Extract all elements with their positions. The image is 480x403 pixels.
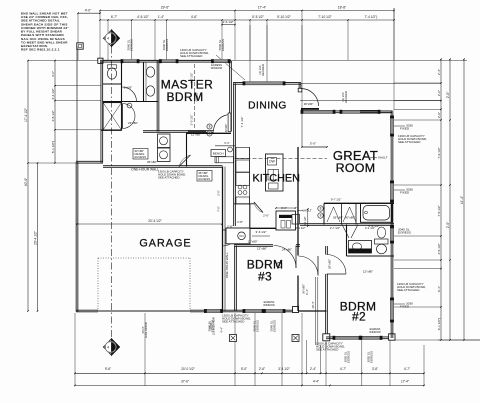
svg-text:WINDOW: WINDOW [263, 303, 275, 307]
svg-text:7'-4 1/2": 7'-4 1/2" [240, 117, 244, 128]
svg-text:4'-6 1/2": 4'-6 1/2" [222, 20, 233, 24]
svg-text:ONE-HOUR WALL: ONE-HOUR WALL [131, 168, 159, 172]
svg-text:EGRESS: EGRESS [398, 231, 411, 235]
svg-text:2'-4": 2'-4" [310, 367, 316, 371]
svg-text:41'-4": 41'-4" [460, 195, 464, 204]
svg-text:2'-0": 2'-0" [446, 221, 450, 228]
svg-text:3'-0 1/2": 3'-0 1/2" [190, 73, 194, 84]
svg-text:EGRESS: EGRESS [256, 320, 260, 332]
svg-text:EGRESS: EGRESS [370, 351, 374, 363]
svg-text:20'-4 1/2": 20'-4 1/2" [148, 219, 161, 223]
svg-text:4: 4 [107, 345, 109, 349]
svg-text:EGRESS: EGRESS [211, 320, 215, 332]
svg-text:3'-1 1/2": 3'-1 1/2" [365, 226, 375, 230]
svg-text:KITCHEN: KITCHEN [253, 173, 300, 185]
svg-text:20'-0 1/2": 20'-0 1/2" [181, 367, 194, 371]
svg-text:5'-10 1/2": 5'-10 1/2" [277, 15, 290, 19]
svg-text:8: 8 [320, 207, 322, 211]
svg-text:KN: KN [239, 234, 243, 238]
svg-text:3'-4 1/2": 3'-4 1/2" [278, 367, 290, 371]
svg-text:6'-4": 6'-4" [224, 141, 229, 145]
svg-text:3'-6": 3'-6" [372, 367, 378, 371]
svg-text:SEE ATTACHED: SEE ATTACHED [316, 348, 339, 352]
svg-text:2'-6": 2'-6" [259, 367, 265, 371]
svg-text:9'-7 1/2": 9'-7 1/2" [331, 198, 342, 202]
exterior walls [98, 58, 103, 63]
svg-text:5'-5 1/2": 5'-5 1/2" [252, 15, 264, 19]
svg-text:5'-1 1/2"): 5'-1 1/2") [51, 141, 55, 153]
svg-text:SEE ATTACHED: SEE ATTACHED [158, 176, 180, 180]
svg-text:8: 8 [320, 214, 322, 218]
svg-text:37'-6": 37'-6" [181, 379, 189, 383]
svg-text:4'-5 1/2": 4'-5 1/2" [437, 243, 441, 254]
svg-text:ACCESS: ACCESS [198, 177, 210, 181]
svg-text:EGRESS: EGRESS [129, 39, 133, 51]
svg-text:6'-1": 6'-1" [437, 286, 441, 292]
svg-text:18'-8": 18'-8" [338, 6, 347, 10]
svg-text:GARAGE: GARAGE [139, 238, 191, 250]
svg-text:9'-4": 9'-4" [305, 289, 309, 295]
svg-text:4'-4": 4'-4" [220, 327, 224, 333]
svg-text:DW: DW [269, 160, 275, 164]
svg-text:EGRESS: EGRESS [347, 351, 351, 363]
svg-text:SEE ATTACHED: SEE ATTACHED [398, 140, 421, 144]
svg-text:2'x6'8": 2'x6'8" [124, 86, 132, 90]
svg-text:DINING: DINING [248, 100, 287, 111]
svg-text:2'-6": 2'-6" [263, 214, 269, 218]
svg-text:12"x80": 12"x80" [363, 270, 373, 274]
svg-text:EGRESS: EGRESS [165, 39, 169, 51]
svg-text:20'-4 1/2": 20'-4 1/2" [33, 230, 37, 245]
svg-text:2'-4": 2'-4" [437, 69, 441, 75]
svg-text:24"x80": 24"x80" [128, 121, 138, 125]
svg-text:ONE-HOUR WALL: ONE-HOUR WALL [225, 252, 229, 278]
svg-text:4'-0": 4'-0" [85, 8, 92, 12]
svg-text:5'-0": 5'-0" [310, 142, 316, 146]
svg-text:SEE ATTACHED: SEE ATTACHED [397, 288, 420, 292]
svg-text:40'-0": 40'-0" [24, 177, 28, 186]
svg-text:2'-4 1/2": 2'-4 1/2" [51, 88, 55, 99]
svg-text:SEE ATTACHED: SEE ATTACHED [222, 320, 245, 324]
svg-text:24"x80": 24"x80" [282, 247, 292, 251]
svg-text:29'-6": 29'-6" [161, 6, 170, 10]
master bath / walk-in closet [121, 62, 123, 102]
svg-text:4'-6": 4'-6" [191, 15, 197, 19]
svg-text:4'-0": 4'-0" [51, 71, 55, 77]
svg-text:6'-1 1/2"): 6'-1 1/2") [437, 318, 441, 330]
svg-text:8: 8 [209, 125, 211, 129]
laundry / mud room [186, 133, 188, 167]
svg-text:4'-8 1/2": 4'-8 1/2" [51, 110, 55, 121]
svg-text:7'-4 1/2"): 7'-4 1/2") [365, 15, 378, 19]
svg-text:4'-6 1/2": 4'-6 1/2" [137, 15, 149, 19]
svg-text:3'-6 1/2": 3'-6 1/2" [256, 230, 267, 234]
svg-text:EGRESS: EGRESS [221, 39, 225, 51]
svg-text:9'-6": 9'-6" [105, 367, 111, 371]
svg-text:12"x80": 12"x80" [257, 246, 267, 250]
svg-text:FIXED: FIXED [400, 305, 410, 309]
svg-text:2'-0": 2'-0" [217, 190, 221, 196]
svg-text:5'-0": 5'-0" [241, 367, 247, 371]
svg-text:36"x80": 36"x80" [304, 102, 314, 106]
svg-text:6'-7": 6'-7" [111, 15, 117, 19]
dining / kitchen [233, 83, 235, 226]
svg-text:7'-6": 7'-6" [217, 206, 221, 212]
svg-text:REF SEC R602.10.2.2.1: REF SEC R602.10.2.2.1 [21, 48, 60, 52]
svg-text:17'-4 1/2": 17'-4 1/2" [24, 107, 28, 122]
svg-text:SEE ATTACHED: SEE ATTACHED [180, 54, 203, 58]
svg-text:12"x80": 12"x80" [248, 240, 258, 244]
svg-text:7'-5 1/2": 7'-5 1/2" [437, 205, 441, 216]
svg-text:4'-4": 4'-4" [313, 379, 319, 383]
svg-text:ACCESS: ACCESS [134, 155, 146, 159]
svg-text:17'-4": 17'-4" [258, 6, 267, 10]
svg-text:HEADER: HEADER [344, 91, 348, 103]
svg-text:3'-1 1/2": 3'-1 1/2" [295, 226, 305, 230]
svg-text:#2: #2 [352, 310, 366, 324]
svg-text:28"x80": 28"x80" [328, 259, 332, 269]
hall / bedroom 3 / bedroom 2 [297, 147, 299, 256]
svg-text:7'-10 1/2": 7'-10 1/2" [318, 15, 331, 19]
svg-text:17'-4": 17'-4" [401, 379, 409, 383]
svg-text:60"x80": 60"x80" [345, 215, 355, 219]
svg-text:1'-4": 1'-4" [158, 15, 164, 19]
svg-text:4'-7": 4'-7" [340, 367, 346, 371]
bathroom 2 [346, 225, 348, 257]
shear wall markers [104, 30, 120, 46]
svg-text:#3: #3 [258, 269, 272, 283]
svg-text:36"x80": 36"x80" [147, 160, 157, 164]
svg-text:4: 4 [107, 37, 109, 41]
svg-text:10'-4": 10'-4" [311, 301, 315, 308]
svg-text:26"x80": 26"x80" [333, 215, 343, 219]
svg-text:EGRESS: EGRESS [273, 320, 277, 332]
svg-text:7'-6 1/2": 7'-6 1/2" [437, 147, 441, 158]
svg-text:1'-1 1/2": 1'-1 1/2" [304, 216, 307, 225]
dimension framework [28, 60, 467, 62]
svg-text:2'-8": 2'-8" [237, 220, 243, 224]
svg-text:GAR DOOR: GAR DOOR [144, 322, 148, 338]
svg-text:HEADER: HEADER [261, 64, 265, 76]
svg-text:3'-0 1/2": 3'-0 1/2" [190, 115, 194, 126]
svg-text:VAULT: VAULT [195, 92, 199, 101]
svg-text:ROOM: ROOM [336, 161, 376, 175]
svg-text:2'-0": 2'-0" [446, 91, 450, 98]
svg-text:VAULT: VAULT [378, 156, 388, 160]
svg-text:30"x80": 30"x80" [225, 124, 228, 133]
svg-text:2'-6": 2'-6" [437, 112, 441, 118]
svg-text:FIXED: FIXED [400, 191, 410, 195]
svg-text:VAULT: VAULT [302, 209, 312, 213]
svg-text:BENCH: BENCH [213, 151, 224, 155]
svg-text:WINDOW: WINDOW [211, 66, 223, 70]
svg-text:4'-7": 4'-7" [404, 367, 410, 371]
svg-text:2'-7 1/2": 2'-7 1/2" [330, 226, 340, 230]
svg-text:WINDOW: WINDOW [369, 330, 381, 334]
garage [222, 167, 224, 312]
svg-text:2'-0": 2'-0" [437, 90, 441, 96]
svg-text:FIXED: FIXED [400, 127, 410, 131]
